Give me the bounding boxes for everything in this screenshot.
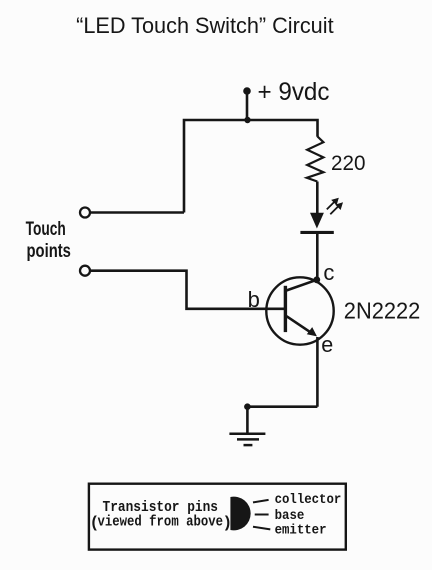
transistor Q1 circle (266, 277, 333, 344)
transistor emitter line with arrow (287, 316, 318, 336)
wire emitter to ground (247, 405, 317, 408)
svg-text:viewed from above: viewed from above (98, 514, 224, 530)
node +9vdc terminal dot (243, 87, 251, 95)
base pin dash (255, 514, 269, 516)
svg-text:“LED Touch Switch” Circuit: “LED Touch Switch” Circuit (76, 13, 334, 38)
svg-text:2N2222: 2N2222 (344, 297, 421, 323)
transistor collector line (286, 280, 317, 291)
ground symbol (229, 434, 265, 445)
svg-text:Touch: Touch (26, 219, 66, 240)
resistor R 220 zigzag (307, 137, 324, 182)
wire from +9vdc dot down to junction (246, 91, 249, 120)
wire LED to collector (316, 234, 319, 280)
node ground junction dot (244, 403, 251, 410)
touch point terminal 1 (80, 208, 90, 218)
LED D1 anode triangle (310, 213, 324, 229)
svg-text:Transistor pins: Transistor pins (103, 500, 219, 516)
wire from touch point 2 to transistor base (90, 271, 285, 309)
svg-text:220: 220 (331, 151, 366, 175)
svg-text:e: e (321, 332, 333, 357)
LED cathode bar (300, 231, 333, 234)
transistor base bar (284, 286, 287, 332)
wire from touch point 1 to left rail (90, 211, 184, 214)
node junction dot on top rail (244, 117, 250, 123)
wire ground stem (246, 407, 249, 434)
svg-text:emitter: emitter (275, 522, 327, 538)
svg-text:points: points (27, 241, 71, 262)
svg-text:+ 9vdc: + 9vdc (258, 78, 330, 106)
node collector dot (313, 276, 320, 283)
legend box frame (89, 484, 346, 550)
touch point terminal 2 (80, 266, 90, 276)
wire emitter down (316, 337, 319, 407)
wire resistor to LED (316, 182, 319, 215)
svg-text:collector: collector (275, 492, 342, 508)
emitter pin dash (253, 527, 270, 530)
transistor package top view D shape (230, 497, 250, 531)
collector pin dash (253, 500, 269, 503)
svg-text:b: b (248, 287, 260, 312)
LED light arrow 1 (327, 198, 339, 210)
wire top rail horizontal (184, 120, 318, 213)
svg-text:c: c (323, 260, 334, 285)
LED light arrow 2 (330, 202, 343, 214)
